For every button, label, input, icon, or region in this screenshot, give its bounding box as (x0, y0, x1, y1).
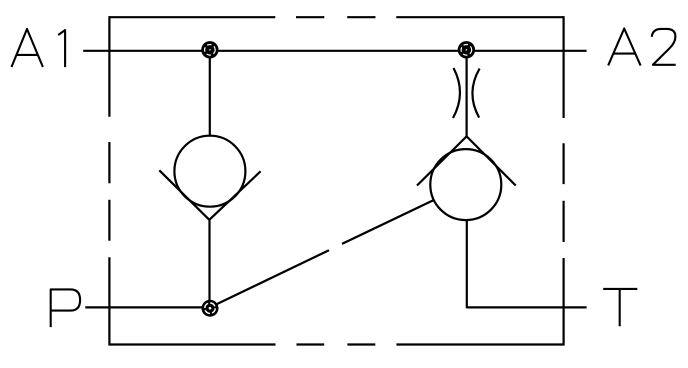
junction node P (202, 300, 219, 317)
enclosure dashed border: top edge (109, 16, 564, 18)
port label P (51, 289, 80, 327)
check valve V2 ball (430, 149, 501, 220)
wire A1-A2 top line (83, 50, 586, 52)
junction node A1 (201, 41, 218, 58)
wire P line (85, 306, 210, 308)
wire: stub from node A2 to check valve V2 (466, 51, 468, 137)
enclosure dashed border: bottom edge (109, 343, 564, 345)
enclosure dashed border: left edge (108, 16, 110, 345)
wire T line with corner from valve V2 drain (467, 220, 587, 308)
port label A2 (608, 29, 676, 66)
junction node A2 (458, 41, 475, 58)
wire: stub from valve V1 seat to node P (208, 220, 210, 308)
port label T (603, 289, 637, 326)
check valve V1 seat (159, 170, 260, 220)
enclosure dashed border: right edge (562, 16, 564, 345)
check valve V1 ball (174, 136, 245, 207)
wire: stub from node A1 to check valve V1 (209, 51, 211, 136)
orifice restrictor right arc (472, 69, 479, 118)
pilot line (dashed) from node P to valve V2 (210, 200, 434, 307)
port label A1 (12, 29, 66, 67)
orifice restrictor left arc (453, 68, 460, 118)
check valve V2 seat (417, 136, 516, 185)
